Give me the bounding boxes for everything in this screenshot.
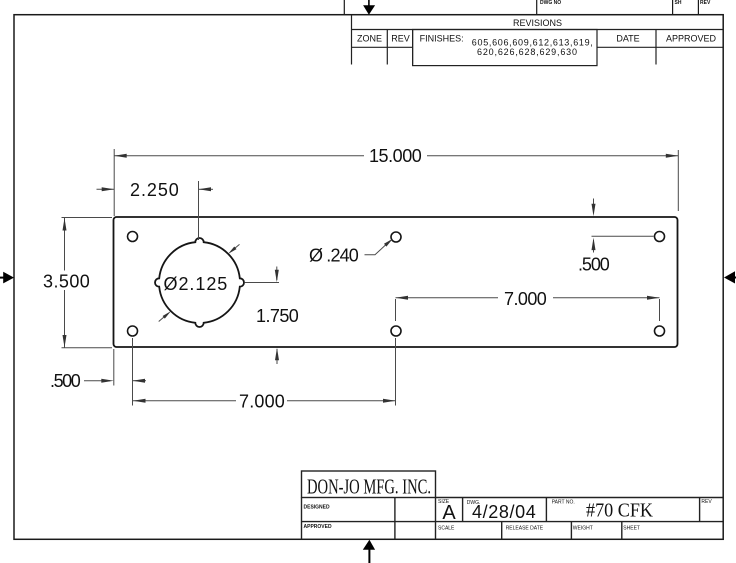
centering mark right	[724, 271, 736, 283]
circle notch arrow upper-right	[228, 244, 239, 254]
svg-text:DON-JO MFG. INC.: DON-JO MFG. INC.	[307, 475, 431, 499]
svg-text:15.000: 15.000	[369, 146, 422, 166]
dimension lines	[62, 149, 679, 406]
svg-text:REV: REV	[700, 0, 711, 6]
dim 15.000 extension left	[113, 149, 115, 216]
svg-text:.500: .500	[578, 254, 610, 274]
svg-text:FINISHES:: FINISHES:	[420, 34, 464, 44]
dim text dia .240	[309, 245, 359, 265]
hole top-left	[128, 232, 138, 242]
dim .500 bottom-left extensions	[114, 338, 133, 406]
dim 3.500 extension top	[62, 217, 113, 219]
big hole with 4 notches	[155, 238, 244, 327]
dim 2.250 extension (circle centerline)	[198, 181, 200, 240]
hole centerline top-right	[592, 235, 654, 237]
centering mark left	[0, 272, 14, 284]
dim 3.500 line	[63, 218, 67, 348]
dim 15.000 extension right	[677, 150, 679, 211]
svg-text:2.250: 2.250	[130, 180, 179, 200]
title block lines	[302, 471, 723, 540]
svg-text:Ø2.125: Ø2.125	[164, 274, 228, 294]
dimension texts	[43, 146, 610, 412]
big hole diameter text	[164, 274, 228, 294]
svg-text:RELEASE DATE: RELEASE DATE	[506, 526, 544, 532]
svg-text:REV: REV	[701, 499, 712, 505]
svg-text:620,626,628,629,630: 620,626,628,629,630	[477, 47, 577, 57]
centering mark top	[363, 0, 375, 15]
svg-text:SCALE: SCALE	[438, 526, 455, 532]
partial strip above top border	[344, 0, 698, 14]
svg-text:3.500: 3.500	[43, 271, 90, 291]
revisions table lines	[352, 15, 723, 66]
svg-text:APPROVED: APPROVED	[304, 524, 332, 530]
svg-text:SH: SH	[675, 0, 682, 6]
hole bottom-left	[128, 326, 138, 336]
hole top-middle	[391, 232, 401, 242]
svg-text:4/28/04: 4/28/04	[472, 502, 536, 522]
dim text 1.750	[256, 306, 299, 326]
dim text .500 bottom-left	[50, 371, 81, 391]
dim .500 top-right arrows	[592, 199, 596, 253]
svg-text:7.000: 7.000	[239, 392, 285, 412]
svg-text:SHEET: SHEET	[623, 526, 640, 532]
revisions table text	[357, 18, 717, 57]
dim 7.000 right line	[396, 296, 660, 321]
svg-text:REV: REV	[391, 34, 410, 44]
hole bottom-right	[655, 326, 665, 336]
dim 3.500 extension bottom	[62, 347, 113, 349]
svg-text:ZONE: ZONE	[357, 34, 382, 44]
dim text 7.000 bottom	[239, 392, 285, 412]
svg-text:WEIGHT: WEIGHT	[573, 526, 593, 532]
dim 7.000 bottom line	[133, 338, 396, 406]
plate outline	[114, 217, 678, 347]
svg-text:DATE: DATE	[616, 34, 639, 44]
dim 2.250 line	[97, 187, 214, 191]
svg-text:7.000: 7.000	[504, 289, 547, 309]
svg-text:#70 CFK: #70 CFK	[586, 500, 654, 522]
dim .500 bottom-left arrows	[84, 379, 146, 383]
clipped text remnants above border	[540, 0, 711, 6]
svg-text:1.750: 1.750	[256, 306, 299, 326]
dim text 3.500	[43, 271, 90, 291]
leader dia .240	[365, 239, 393, 255]
title block text	[304, 475, 713, 532]
svg-text:DESIGNED: DESIGNED	[304, 505, 331, 511]
svg-text:.500: .500	[50, 371, 81, 391]
svg-text:REVISIONS: REVISIONS	[513, 18, 562, 28]
svg-text:DWG NO: DWG NO	[540, 0, 561, 6]
svg-text:PART NO.: PART NO.	[552, 500, 575, 506]
svg-text:Ø .240: Ø .240	[309, 245, 359, 265]
dim text 2.250	[130, 180, 179, 200]
svg-text:605,606,609,612,613,619,: 605,606,609,612,613,619,	[472, 37, 593, 47]
hole top-right	[655, 232, 665, 242]
svg-text:A: A	[442, 502, 456, 524]
hole bottom-middle	[391, 326, 401, 336]
dim text 15.000	[369, 146, 422, 166]
dim 1.750 centerline from circle	[245, 282, 280, 284]
centering mark bottom	[363, 540, 375, 563]
dim text 7.000 right	[504, 289, 547, 309]
circle notch arrow lower-left	[159, 311, 171, 321]
dim 15.000 line	[114, 154, 678, 158]
dim text .500 top-right	[578, 254, 610, 274]
svg-text:APPROVED: APPROVED	[666, 34, 717, 44]
dim 1.750 arrows	[275, 267, 279, 365]
